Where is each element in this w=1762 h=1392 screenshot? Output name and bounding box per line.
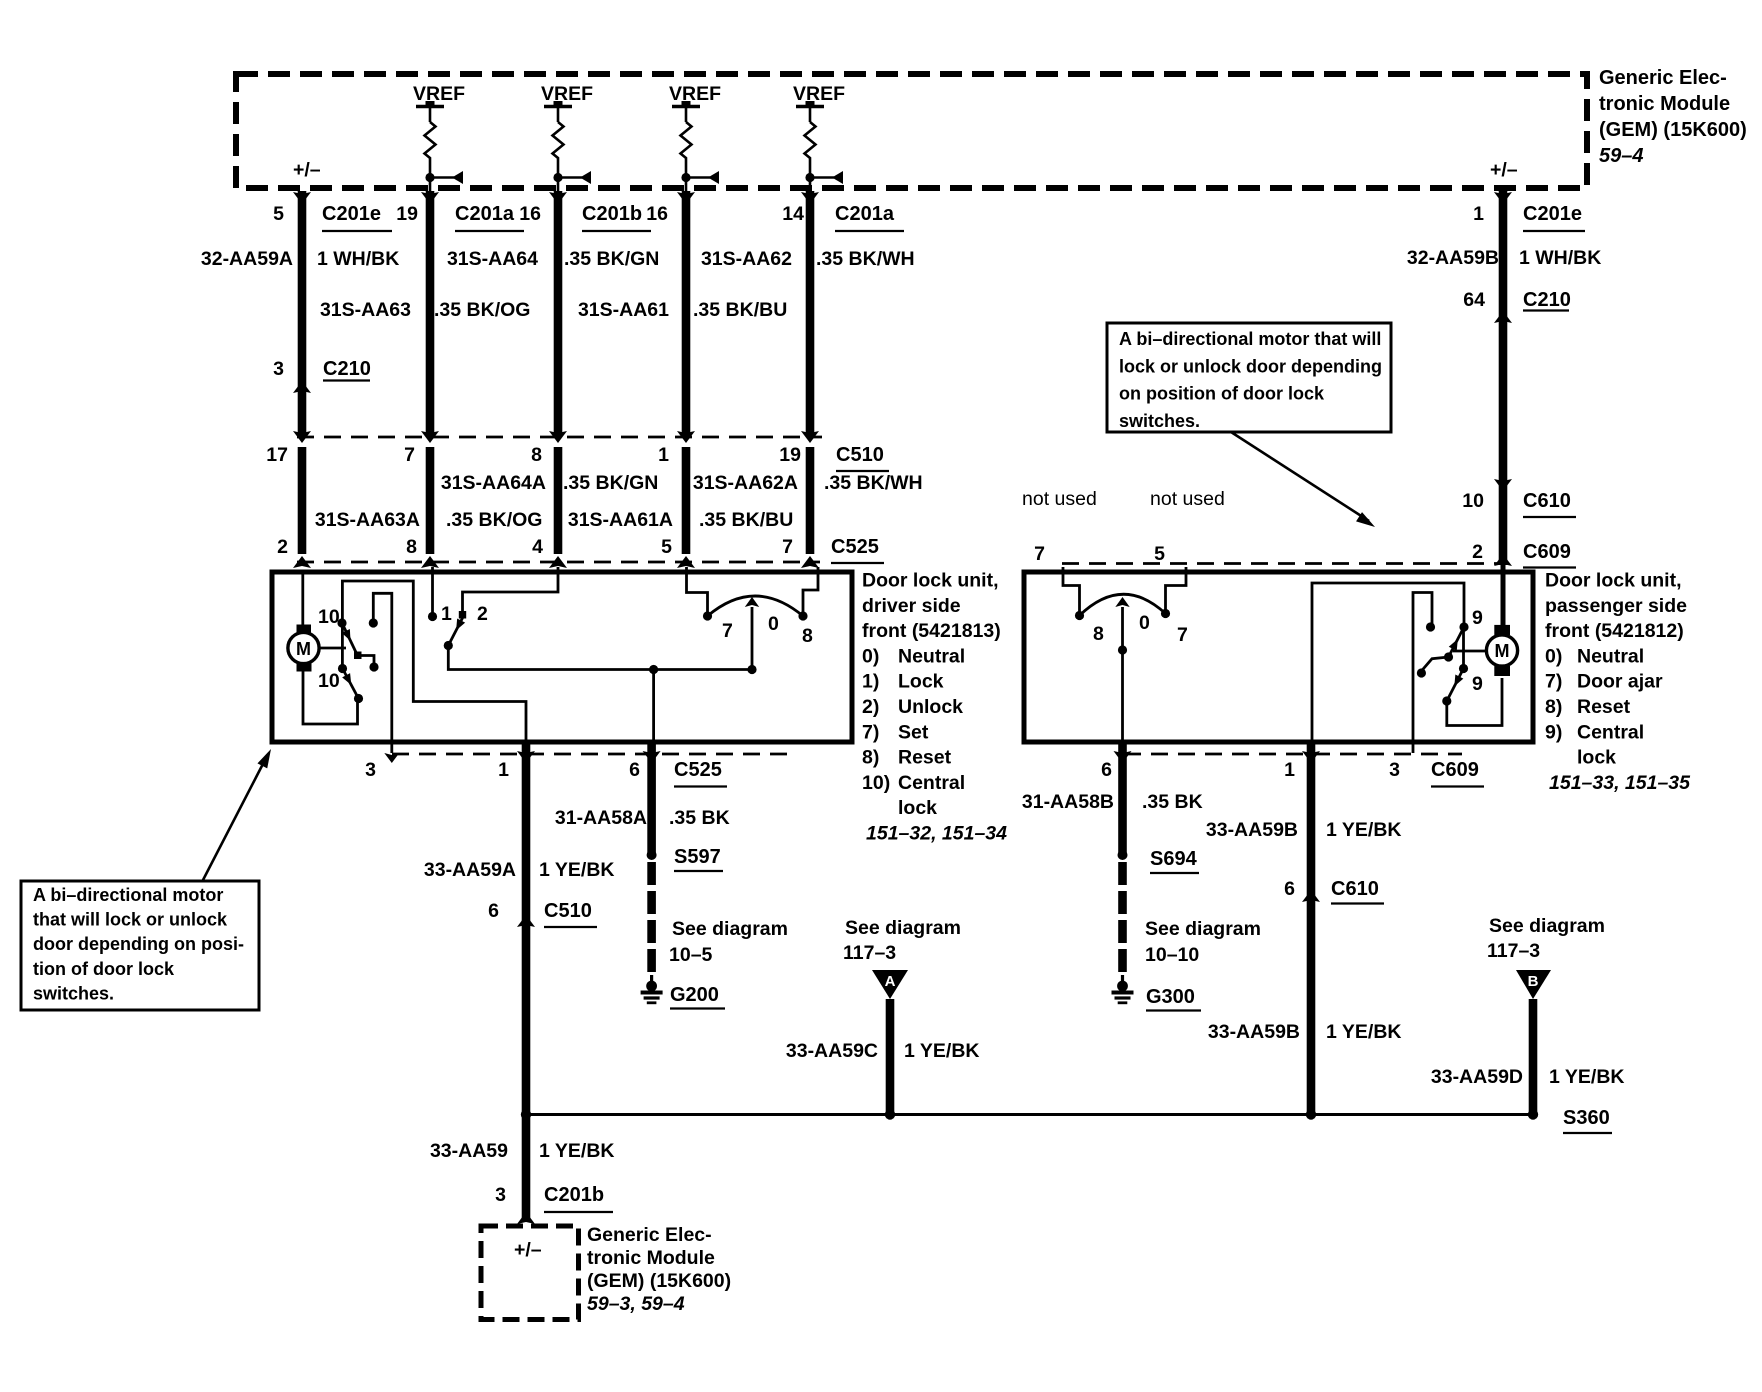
svg-text:6: 6 [1284, 878, 1295, 900]
svg-text:Generic Elec-: Generic Elec- [1599, 67, 1727, 89]
svg-text:59–4: 59–4 [1599, 145, 1644, 167]
svg-text:1): 1) [862, 671, 879, 693]
svg-text:2: 2 [477, 603, 488, 625]
svg-text:C510: C510 [836, 444, 884, 466]
svg-text:9: 9 [1472, 607, 1483, 629]
svg-text:32-AA59B: 32-AA59B [1407, 247, 1499, 269]
svg-text:33-AA59A: 33-AA59A [424, 859, 516, 881]
svg-text:117–3: 117–3 [843, 942, 896, 964]
svg-text:C609: C609 [1523, 541, 1571, 563]
svg-text:.35 BK/OG: .35 BK/OG [446, 509, 542, 531]
svg-text:1: 1 [498, 759, 509, 781]
svg-text:C610: C610 [1523, 490, 1571, 512]
svg-text:switches.: switches. [1119, 411, 1200, 431]
svg-text:1 WH/BK: 1 WH/BK [1519, 247, 1601, 269]
svg-text:Central: Central [1577, 721, 1644, 743]
svg-text:10–5: 10–5 [669, 944, 713, 966]
svg-text:M: M [296, 639, 311, 659]
svg-text:6: 6 [629, 759, 640, 781]
svg-text:switches.: switches. [33, 983, 114, 1003]
svg-text:19: 19 [396, 203, 418, 225]
svg-text:C210: C210 [1523, 289, 1571, 311]
svg-text:1 WH/BK: 1 WH/BK [317, 248, 399, 270]
svg-text:1 YE/BK: 1 YE/BK [539, 859, 615, 881]
svg-text:16: 16 [646, 203, 668, 225]
svg-text:7): 7) [862, 721, 879, 743]
svg-text:0): 0) [862, 645, 879, 667]
svg-text:31S-AA62: 31S-AA62 [701, 248, 792, 270]
svg-text:See diagram: See diagram [845, 917, 961, 939]
svg-text:Door lock unit,: Door lock unit, [1545, 570, 1682, 592]
svg-text:+/–: +/– [514, 1239, 542, 1261]
svg-text:not used: not used [1150, 488, 1225, 510]
svg-text:VREF: VREF [669, 83, 721, 105]
svg-text:C201e: C201e [322, 203, 381, 225]
svg-text:5: 5 [661, 536, 672, 558]
svg-text:B: B [1528, 973, 1539, 990]
svg-text:C201b: C201b [544, 1184, 604, 1206]
svg-text:C201a: C201a [835, 203, 895, 225]
svg-text:1: 1 [1473, 203, 1484, 225]
svg-text:10–10: 10–10 [1145, 944, 1199, 966]
svg-text:.35 BK/BU: .35 BK/BU [693, 299, 787, 321]
svg-text:tion of door lock: tion of door lock [33, 959, 175, 979]
svg-text:17: 17 [266, 444, 288, 466]
svg-text:front (5421813): front (5421813) [862, 620, 1001, 642]
svg-text:2): 2) [862, 696, 879, 718]
svg-text:5: 5 [273, 203, 284, 225]
svg-text:8): 8) [862, 747, 879, 769]
svg-text:(GEM) (15K600): (GEM) (15K600) [1599, 119, 1747, 141]
svg-text:4: 4 [532, 536, 543, 558]
svg-text:C525: C525 [674, 759, 722, 781]
svg-text:14: 14 [782, 203, 804, 225]
svg-text:See diagram: See diagram [1489, 915, 1605, 937]
svg-text:0: 0 [768, 613, 779, 635]
svg-text:19: 19 [779, 444, 801, 466]
svg-text:1 YE/BK: 1 YE/BK [904, 1040, 980, 1062]
svg-text:.35 BK: .35 BK [1142, 791, 1203, 813]
svg-text:.35 BK/GN: .35 BK/GN [564, 248, 659, 270]
svg-text:Reset: Reset [1577, 696, 1631, 718]
svg-text:7: 7 [404, 444, 415, 466]
svg-text:+/–: +/– [1490, 159, 1518, 181]
svg-text:Lock: Lock [898, 671, 944, 693]
svg-text:VREF: VREF [793, 83, 845, 105]
svg-text:Set: Set [898, 721, 929, 743]
svg-text:G200: G200 [670, 984, 719, 1006]
svg-text:Door ajar: Door ajar [1577, 671, 1663, 693]
svg-text:8): 8) [1545, 696, 1562, 718]
svg-text:31S-AA63: 31S-AA63 [320, 299, 411, 321]
svg-text:151–33, 151–35: 151–33, 151–35 [1549, 772, 1691, 794]
svg-text:33-AA59C: 33-AA59C [786, 1040, 878, 1062]
svg-text:Neutral: Neutral [898, 645, 965, 667]
svg-text:door depending on posi-: door depending on posi- [33, 934, 244, 954]
svg-text:not used: not used [1022, 488, 1097, 510]
svg-text:31-AA58B: 31-AA58B [1022, 791, 1114, 813]
svg-text:Neutral: Neutral [1577, 645, 1644, 667]
svg-text:10: 10 [318, 670, 340, 692]
svg-text:S360: S360 [1563, 1107, 1610, 1129]
svg-text:33-AA59D: 33-AA59D [1431, 1066, 1523, 1088]
svg-text:10: 10 [1462, 490, 1484, 512]
svg-text:(GEM) (15K600): (GEM) (15K600) [587, 1270, 731, 1292]
svg-text:7: 7 [782, 536, 793, 558]
svg-text:tronic Module: tronic Module [1599, 93, 1730, 115]
svg-text:9): 9) [1545, 721, 1562, 743]
svg-text:lock: lock [898, 797, 937, 819]
svg-text:7): 7) [1545, 671, 1562, 693]
svg-text:7: 7 [722, 620, 733, 642]
svg-text:1: 1 [658, 444, 669, 466]
svg-text:VREF: VREF [541, 83, 593, 105]
svg-text:8: 8 [406, 536, 417, 558]
svg-text:5: 5 [1154, 543, 1165, 565]
svg-text:passenger side: passenger side [1545, 595, 1687, 617]
svg-text:151–32, 151–34: 151–32, 151–34 [866, 823, 1007, 845]
svg-text:C510: C510 [544, 900, 592, 922]
svg-text:.35 BK/OG: .35 BK/OG [434, 299, 530, 321]
svg-text:See diagram: See diagram [1145, 918, 1261, 940]
svg-text:+/–: +/– [293, 159, 321, 181]
svg-text:10: 10 [318, 606, 340, 628]
svg-text:31-AA58A: 31-AA58A [555, 807, 647, 829]
svg-text:31S-AA64: 31S-AA64 [447, 248, 538, 270]
svg-text:10): 10) [862, 772, 890, 794]
svg-text:C201b: C201b [582, 203, 642, 225]
svg-text:A bi–directional motor: A bi–directional motor [33, 885, 223, 905]
svg-text:.35 BK/WH: .35 BK/WH [824, 472, 923, 494]
svg-text:lock: lock [1577, 747, 1616, 769]
svg-text:0: 0 [1139, 612, 1150, 634]
svg-text:31S-AA63A: 31S-AA63A [315, 509, 420, 531]
svg-text:S694: S694 [1150, 848, 1198, 870]
svg-text:64: 64 [1463, 289, 1485, 311]
svg-text:8: 8 [802, 625, 813, 647]
svg-text:3: 3 [1389, 759, 1400, 781]
svg-text:1: 1 [441, 603, 452, 625]
svg-text:31S-AA62A: 31S-AA62A [693, 472, 798, 494]
svg-text:1 YE/BK: 1 YE/BK [1549, 1066, 1625, 1088]
svg-text:1 YE/BK: 1 YE/BK [1326, 819, 1402, 841]
svg-text:A bi–directional motor that wi: A bi–directional motor that will [1119, 329, 1381, 349]
svg-text:3: 3 [495, 1184, 506, 1206]
svg-text:.35 BK: .35 BK [669, 807, 730, 829]
svg-text:7: 7 [1177, 624, 1188, 646]
svg-text:6: 6 [1101, 759, 1112, 781]
svg-text:6: 6 [488, 900, 499, 922]
svg-text:32-AA59A: 32-AA59A [201, 248, 293, 270]
svg-text:C609: C609 [1431, 759, 1479, 781]
svg-text:C525: C525 [831, 536, 879, 558]
svg-text:8: 8 [531, 444, 542, 466]
svg-text:117–3: 117–3 [1487, 940, 1540, 962]
svg-text:1 YE/BK: 1 YE/BK [1326, 1021, 1402, 1043]
svg-text:9: 9 [1472, 673, 1483, 695]
svg-text:S597: S597 [674, 846, 721, 868]
svg-text:33-AA59B: 33-AA59B [1208, 1021, 1300, 1043]
svg-text:Reset: Reset [898, 747, 952, 769]
svg-text:31S-AA64A: 31S-AA64A [441, 472, 546, 494]
svg-text:tronic Module: tronic Module [587, 1247, 715, 1269]
svg-text:1 YE/BK: 1 YE/BK [539, 1140, 615, 1162]
svg-text:31S-AA61A: 31S-AA61A [568, 509, 673, 531]
svg-text:Door lock unit,: Door lock unit, [862, 570, 999, 592]
svg-text:Central: Central [898, 772, 965, 794]
svg-text:.35 BK/BU: .35 BK/BU [699, 509, 793, 531]
svg-text:that will lock or unlock: that will lock or unlock [33, 910, 228, 930]
svg-text:G300: G300 [1146, 986, 1195, 1008]
svg-text:1: 1 [1284, 759, 1295, 781]
svg-text:front (5421812): front (5421812) [1545, 620, 1684, 642]
svg-text:on position of door lock: on position of door lock [1119, 384, 1325, 404]
svg-text:2: 2 [1472, 541, 1483, 563]
svg-text:.35 BK/GN: .35 BK/GN [563, 472, 658, 494]
svg-text:VREF: VREF [413, 83, 465, 105]
svg-text:7: 7 [1034, 543, 1045, 565]
svg-text:3: 3 [365, 759, 376, 781]
svg-text:2: 2 [277, 536, 288, 558]
svg-text:Generic Elec-: Generic Elec- [587, 1224, 712, 1246]
svg-text:C201e: C201e [1523, 203, 1582, 225]
svg-text:lock or unlock door depending: lock or unlock door depending [1119, 356, 1382, 376]
svg-text:M: M [1495, 641, 1510, 661]
svg-text:59–3, 59–4: 59–3, 59–4 [587, 1293, 685, 1315]
svg-text:Unlock: Unlock [898, 696, 963, 718]
svg-text:A: A [885, 973, 896, 990]
svg-text:C210: C210 [323, 358, 371, 380]
svg-text:33-AA59: 33-AA59 [430, 1140, 508, 1162]
svg-text:0): 0) [1545, 645, 1562, 667]
svg-text:16: 16 [519, 203, 541, 225]
svg-text:.35 BK/WH: .35 BK/WH [816, 248, 915, 270]
svg-text:driver side: driver side [862, 595, 961, 617]
svg-text:See diagram: See diagram [672, 918, 788, 940]
svg-text:8: 8 [1093, 623, 1104, 645]
svg-text:31S-AA61: 31S-AA61 [578, 299, 669, 321]
svg-text:33-AA59B: 33-AA59B [1206, 819, 1298, 841]
svg-text:C610: C610 [1331, 878, 1379, 900]
svg-text:C201a: C201a [455, 203, 515, 225]
svg-text:3: 3 [273, 358, 284, 380]
